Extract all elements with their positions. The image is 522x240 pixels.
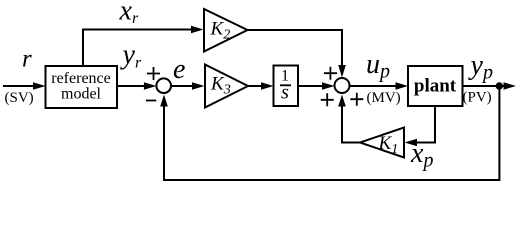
wire plant bottom to K1 input xyxy=(417,106,436,143)
wire integrator output to summing junction 2 xyxy=(298,85,324,87)
svg-text:yp: yp xyxy=(468,50,493,84)
svg-text:r: r xyxy=(22,46,32,73)
sign plus at summing junction 1 xyxy=(147,67,160,80)
svg-text:reference: reference xyxy=(51,70,111,87)
arrowhead into reference model box xyxy=(33,82,46,90)
wire u_p from summing junction 2 to plant xyxy=(350,85,398,87)
arrowhead into plant box xyxy=(396,82,409,90)
svg-text:xr: xr xyxy=(119,0,139,27)
wire K2 output to summing junction 2 top xyxy=(248,30,343,67)
arrowhead into K1 right edge xyxy=(405,139,418,147)
arrowhead up into summing junction 2 bottom xyxy=(338,95,346,107)
block reference model box xyxy=(46,66,118,108)
arrowhead into summing junction 2 left xyxy=(322,82,335,90)
sign plus bottom-right at summing junction 2 xyxy=(350,93,363,106)
arrowhead into integrator box xyxy=(261,82,274,90)
arrowhead down into summing junction 2 xyxy=(338,65,346,78)
svg-text:(MV): (MV) xyxy=(367,90,401,106)
svg-text:plant: plant xyxy=(414,76,457,97)
summing junction 1 circle xyxy=(156,78,171,93)
arrowhead output right edge xyxy=(504,82,517,90)
svg-text:K1: K1 xyxy=(378,133,399,157)
wire K3 output to integrator xyxy=(248,85,262,87)
gain triangle K2 xyxy=(204,9,248,52)
svg-text:(PV): (PV) xyxy=(463,90,492,106)
svg-text:e: e xyxy=(173,54,185,85)
wire K1 output up to summing junction 2 bottom xyxy=(342,106,360,143)
wire x_r from box top to K2 xyxy=(83,30,193,67)
block plant box xyxy=(408,66,463,106)
gain triangle K1 pointing left xyxy=(360,128,404,158)
svg-text:K3: K3 xyxy=(210,74,231,98)
sign plus bottom-left at summing junction 2 xyxy=(321,93,334,106)
svg-text:(SV): (SV) xyxy=(5,90,34,106)
arrowhead into K3 xyxy=(192,82,205,90)
sign plus top-left at summing junction 2 xyxy=(324,67,337,80)
svg-text:up: up xyxy=(366,49,390,83)
node output junction dot xyxy=(496,83,502,89)
svg-text:yr: yr xyxy=(120,40,142,72)
sign minus at summing junction 1 xyxy=(146,100,156,102)
wire e from summing junction 1 to K3 xyxy=(171,85,194,87)
gain triangle K3 xyxy=(205,65,248,108)
block integrator 1/s box xyxy=(274,66,299,107)
fraction bar of integrator xyxy=(280,84,291,86)
summing junction 2 circle xyxy=(335,78,350,93)
wire outer feedback from output node to summing junction 1 bottom xyxy=(164,86,499,180)
wire y_p plant output xyxy=(463,85,505,87)
svg-text:model: model xyxy=(61,86,102,103)
arrowhead into summing junction 1 xyxy=(144,82,157,90)
arrowhead up into summing junction 1 bottom xyxy=(160,95,168,107)
wire y_r from box to summing junction 1 xyxy=(117,85,145,87)
svg-text:s: s xyxy=(281,82,289,104)
arrowhead into K2 xyxy=(191,26,204,34)
svg-text:K2: K2 xyxy=(210,19,231,43)
wire r input xyxy=(3,85,35,87)
